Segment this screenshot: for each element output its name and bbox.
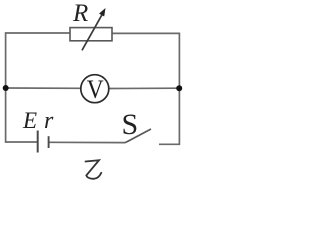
svg-text:V: V bbox=[87, 76, 104, 105]
svg-text:E: E bbox=[22, 108, 37, 133]
svg-text:S: S bbox=[122, 108, 139, 141]
svg-text:R: R bbox=[72, 0, 88, 27]
svg-text:r: r bbox=[44, 108, 54, 134]
